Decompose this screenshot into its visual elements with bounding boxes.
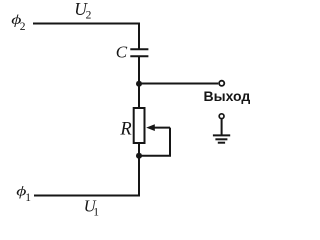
output terminal open circle: [219, 81, 224, 86]
svg-text:C: C: [116, 42, 128, 61]
node phi1 terminal label: [16, 183, 31, 204]
node B junction dot: [136, 153, 142, 159]
node phi2 terminal label: [11, 12, 26, 33]
wire node A to resistor top: [138, 84, 140, 108]
resistor R potentiometer body: [134, 108, 145, 143]
ground symbol: [213, 135, 230, 142]
svg-text:2: 2: [86, 9, 92, 21]
output label Выход: [204, 88, 251, 104]
wire ground stem: [221, 119, 223, 135]
value label C: [116, 42, 128, 61]
svg-text:R: R: [119, 120, 131, 140]
value label R: [119, 120, 131, 140]
ground terminal circle: [219, 114, 224, 119]
wire wiper loop down to node B: [139, 128, 170, 156]
value label U1: [84, 196, 100, 218]
svg-text:Выход: Выход: [204, 88, 251, 104]
wire from phi2 to capacitor: [33, 24, 139, 49]
capacitor C: [130, 49, 148, 56]
svg-text:1: 1: [93, 207, 99, 219]
svg-text:1: 1: [25, 192, 31, 204]
svg-text:2: 2: [20, 21, 26, 33]
wire output horizontal: [139, 83, 218, 85]
node A junction dot: [136, 81, 142, 87]
wire resistor bottom to bottom rail: [34, 143, 139, 196]
value label U2: [74, 0, 91, 21]
wire capacitor to node A: [138, 57, 140, 84]
wiper arrow of potentiometer: [146, 124, 170, 131]
